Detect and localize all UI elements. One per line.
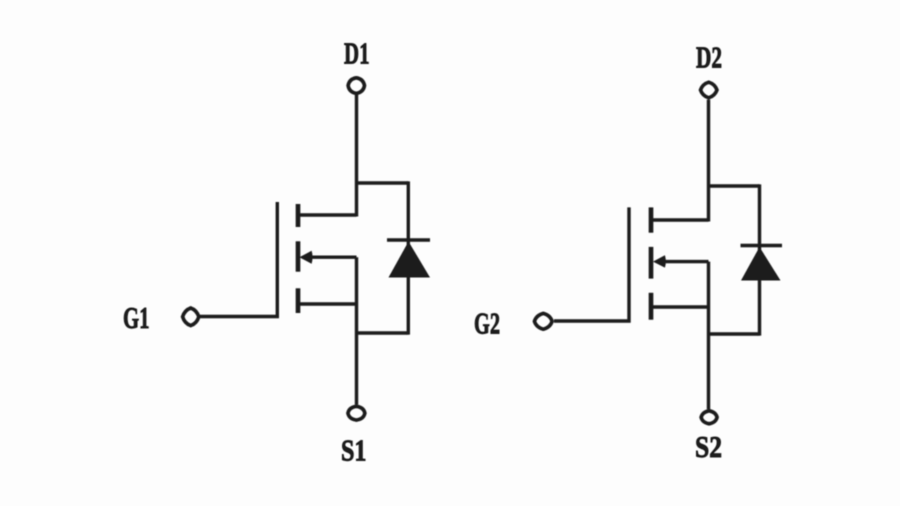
wire drain vertical Q1: [355, 93, 358, 216]
gate line Q2: [554, 207, 629, 321]
svg-text:S1: S1: [341, 433, 367, 468]
diode D1body triangle: [389, 242, 431, 278]
body plate bar Q2: [649, 247, 654, 279]
drain plate bar Q2: [649, 207, 654, 232]
wire drain vertical Q2: [707, 100, 710, 222]
wire diode bottom branch Q2: [707, 332, 760, 335]
wire diode vertical Q2: [758, 184, 761, 335]
wire drain-to-diode top branch Q1: [355, 181, 408, 184]
svg-text:S2: S2: [695, 429, 722, 464]
terminal circle D2: [701, 82, 718, 98]
wire body horizontal Q1: [309, 256, 357, 259]
wire diode vertical Q1: [407, 181, 410, 334]
source plate bar Q2: [649, 293, 654, 320]
diode D1body cathode bar: [387, 238, 430, 242]
svg-text:D1: D1: [344, 36, 370, 71]
terminal circle G1: [183, 308, 199, 326]
arrow body Q2: [653, 255, 666, 267]
body plate bar Q1: [296, 241, 301, 271]
diode D2body triangle: [741, 247, 781, 281]
wire source-plate horizontal Q2: [653, 305, 709, 308]
diode D2body cathode bar: [741, 244, 783, 248]
drain plate bar Q1: [296, 204, 301, 227]
arrow body Q1: [299, 251, 312, 264]
wire top-plate horizontal Q1: [299, 213, 357, 216]
wire source vertical Q1: [355, 257, 358, 404]
wire top-plate horizontal Q2: [653, 218, 709, 221]
svg-text:G2: G2: [474, 306, 500, 341]
wire source-plate horizontal Q1: [299, 302, 357, 305]
gate line Q1: [200, 202, 277, 317]
svg-text:G1: G1: [123, 300, 150, 335]
wire drain-to-diode top branch Q2: [707, 184, 760, 187]
wire diode bottom branch Q1: [355, 331, 408, 334]
terminal circle S2: [701, 411, 717, 424]
wire source vertical Q2: [707, 262, 710, 410]
wire body horizontal Q2: [662, 260, 709, 263]
terminal circle S1: [348, 406, 365, 420]
svg-text:D2: D2: [696, 40, 722, 75]
source plate bar Q1: [296, 288, 301, 313]
terminal circle G2: [534, 313, 552, 329]
terminal circle D1: [348, 78, 364, 94]
